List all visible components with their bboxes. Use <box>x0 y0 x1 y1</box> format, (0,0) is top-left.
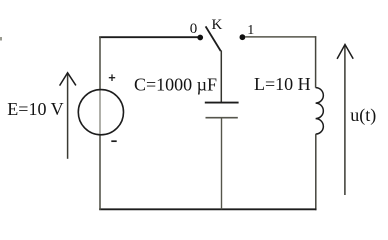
svg-text:E=10 V: E=10 V <box>7 99 63 119</box>
wire capacitor to bottom <box>221 118 223 210</box>
svg-text:C=1000 µF: C=1000 µF <box>134 75 217 95</box>
svg-text:L=10 H: L=10 H <box>254 74 311 94</box>
edge speck <box>0 37 2 41</box>
minus sign <box>111 140 116 142</box>
inductor L1 coil <box>316 88 324 135</box>
node 1 <box>240 34 246 40</box>
node 0 <box>197 35 203 41</box>
capacitor C top plate <box>205 102 239 104</box>
wire right vertical upper <box>315 36 317 87</box>
svg-text:1: 1 <box>247 23 254 38</box>
capacitor C bottom plate <box>206 117 238 119</box>
plus sign <box>109 74 115 81</box>
wire left vertical <box>99 36 101 90</box>
wire bottom horizontal <box>99 208 316 210</box>
wire node1 to top-right <box>245 36 316 38</box>
arrow E (current direction) <box>60 73 76 159</box>
svg-text:u(t): u(t) <box>350 105 376 126</box>
switch K blade <box>206 26 221 51</box>
svg-text:0: 0 <box>190 21 198 37</box>
wire switch pivot to capacitor <box>220 51 222 103</box>
wire right vertical lower <box>315 134 317 210</box>
voltage source E circle <box>78 90 123 135</box>
arrow u(t) voltage <box>337 45 353 196</box>
svg-text:K: K <box>212 17 223 33</box>
wire top-left horizontal <box>99 36 197 38</box>
